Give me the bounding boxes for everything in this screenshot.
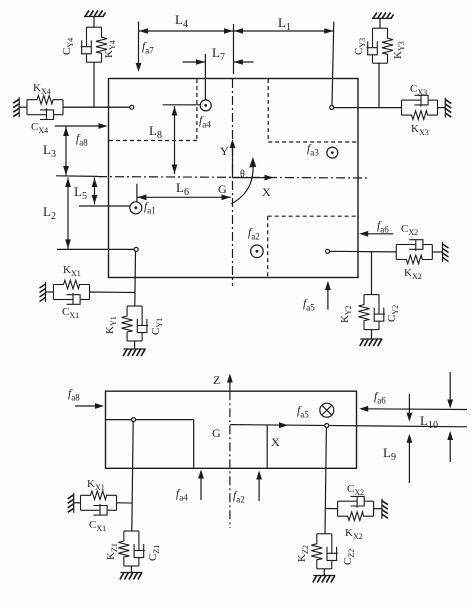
svg-text:X: X (262, 185, 271, 199)
svg-text:KZ1: KZ1 (105, 543, 119, 560)
svg-text:CY1: CY1 (150, 318, 164, 335)
centerline vertical (top view) (232, 79, 234, 286)
wire: X1 stem from wall (46, 291, 54, 293)
ground (X3 wall) (445, 98, 451, 118)
svg-text:KX1: KX1 (87, 478, 105, 492)
wire: top-left node line (64, 106, 130, 108)
svg-text:fa1: fa1 (144, 201, 156, 216)
svg-text:CZ2: CZ2 (342, 549, 356, 565)
centerline vertical (side view) (229, 391, 231, 528)
svg-text:fa4: fa4 (199, 115, 211, 130)
dimension L9 (arrows at x=409) (407, 394, 413, 483)
Y axis (232, 143, 234, 178)
wire: X1 side stem from wall (74, 502, 81, 504)
spring-damper X2 box (damper top) (396, 240, 432, 264)
svg-text:fa2: fa2 (248, 227, 260, 242)
dimension L8 (172, 106, 178, 174)
svg-text:fa6: fa6 (377, 220, 389, 235)
spring-damper X4 box (27, 95, 63, 119)
svg-text:fa8: fa8 (68, 388, 80, 403)
dimension L2 (65, 178, 71, 249)
svg-text:G: G (212, 426, 221, 440)
tick centerline left (56, 175, 98, 178)
dimension L7 (outside arrows) (183, 59, 254, 65)
wire: Y2 stem down (371, 252, 373, 295)
force f_a3 (circle-dot) (327, 147, 338, 158)
svg-text:CY3: CY3 (353, 38, 367, 55)
svg-text:G: G (218, 182, 227, 196)
node (top-right) (330, 106, 334, 110)
spring-damper X1 box (54, 280, 90, 304)
svg-text:L5: L5 (74, 184, 87, 202)
svg-text:L7: L7 (212, 45, 225, 63)
spring-damper Y4 box (81, 27, 108, 62)
spring-damper X3 box (damper on top) (402, 95, 438, 119)
dimension L5 (92, 178, 98, 205)
ground (X1 side wall) (68, 493, 74, 513)
ground (Y2) (360, 339, 383, 346)
spring-damper Y1 box (spring left) (122, 306, 149, 341)
ground (X1 wall) (40, 282, 46, 302)
Z axis (229, 378, 231, 392)
svg-text:CX4: CX4 (31, 121, 48, 135)
theta rotation arc (231, 163, 253, 204)
wire: X2 side stem to wall (374, 508, 382, 510)
force f_a7 arrow (136, 22, 142, 73)
ground (X2 wall) (443, 242, 449, 262)
dimension L4 (139, 28, 234, 34)
wire: side left node down to Z1 (132, 422, 133, 531)
svg-text:KY3: KY3 (392, 41, 406, 59)
svg-text:CY2: CY2 (386, 305, 400, 322)
left foot inner lines (106, 419, 194, 421)
ground (Y4) (84, 11, 106, 17)
tick between L4/L1 (233, 24, 235, 74)
node (side left) (132, 418, 136, 422)
svg-text:L1: L1 (278, 15, 291, 33)
wire: Y3 stem to ground (379, 18, 381, 28)
force f_a6 arrow (side) (359, 406, 467, 412)
spring-damper Y3 box (367, 28, 394, 63)
svg-text:CX2: CX2 (347, 483, 364, 497)
spring-damper X2 box (side, damper top) (338, 496, 374, 520)
X axis (side view) with node line (230, 425, 467, 427)
wire: X4 box to node (63, 106, 130, 108)
svg-text:KZ2: KZ2 (296, 545, 310, 562)
wire: top-right node vertical from L1 (332, 22, 334, 106)
svg-text:fa3: fa3 (307, 143, 319, 158)
mass M (top view outline) (109, 79, 359, 278)
dimension L10 (outside arrows at x=450) (447, 372, 453, 462)
svg-text:fa5: fa5 (303, 298, 315, 313)
dashed partition (top-right region) (268, 79, 357, 142)
force f_a6 arrow (top view) (359, 231, 393, 237)
wire: node down to Y1 (134, 251, 137, 306)
svg-text:fa5: fa5 (297, 405, 309, 420)
wire: bottom-left node line (57, 248, 134, 250)
force f_a8 arrow (55, 123, 108, 129)
dimension L3 (63, 127, 69, 176)
wire: node to X3 (334, 107, 402, 109)
wire: Y4 stem to ground (93, 17, 95, 28)
svg-text:CX1: CX1 (89, 519, 106, 533)
svg-text:Y: Y (220, 144, 229, 158)
svg-text:L8: L8 (149, 123, 162, 141)
spring-damper Z2 box (spring left) (311, 534, 338, 569)
svg-text:L2: L2 (43, 204, 56, 222)
force f_a5 (circle-cross, side) (320, 403, 334, 417)
svg-text:KX1: KX1 (63, 264, 81, 278)
wire: Z2 stem to ground (323, 569, 325, 576)
svg-text:fa4: fa4 (176, 488, 188, 503)
right foot inner line (266, 425, 268, 468)
svg-text:fa2: fa2 (233, 490, 245, 505)
svg-text:CX2: CX2 (401, 223, 418, 237)
dashed partition (top-left region) (109, 79, 197, 141)
svg-text:KX2: KX2 (404, 267, 422, 281)
wire: X1 line to Y1 stem (90, 291, 136, 294)
svg-text:fa8: fa8 (76, 133, 88, 148)
svg-text:KX2: KX2 (345, 527, 363, 541)
svg-text:L6: L6 (176, 180, 189, 198)
ground (Z2) (313, 576, 336, 583)
svg-text:X: X (271, 435, 280, 449)
centerline horizontal (top view) (98, 177, 369, 178)
ground (Z1) (120, 573, 143, 580)
svg-text:CX1: CX1 (62, 306, 79, 320)
svg-text:fa7: fa7 (142, 41, 154, 56)
force f_a2 (circle-dot) (251, 245, 264, 258)
svg-text:CZ1: CZ1 (147, 545, 161, 561)
svg-text:L10: L10 (420, 413, 438, 431)
dimension L1 (234, 28, 334, 34)
mass M (side view outline) (106, 391, 357, 468)
spring-damper Z1 box (spring left) (118, 531, 145, 566)
wire: X1 side stem to vertical (117, 502, 133, 504)
svg-text:KY1: KY1 (104, 316, 118, 334)
wire: bottom-right node line (330, 250, 397, 253)
force f_a1 (circle-dot with stem) (79, 184, 142, 214)
force f_a8 arrow (side) (75, 403, 104, 409)
svg-text:CY4: CY4 (61, 38, 75, 55)
wire: X3 to wall (438, 107, 446, 109)
ground (Y1) (123, 349, 146, 356)
force f_a4 arrow (side) (198, 470, 204, 501)
wire: Y1 stem to ground (134, 341, 136, 349)
svg-text:L9: L9 (383, 445, 396, 463)
node (bottom-right) (326, 249, 330, 253)
wire: X2 side stem from vertical (325, 508, 337, 510)
wire: stem from Y4 assembly down (93, 63, 95, 108)
node (bottom-left) (134, 247, 138, 251)
svg-text:KX4: KX4 (33, 82, 51, 96)
spring-damper Y2 box (spring left) (359, 295, 386, 330)
svg-text:θ: θ (240, 169, 245, 180)
dimension L6 (137, 194, 231, 200)
svg-text:CX3: CX3 (410, 83, 427, 97)
wire: Y3 stem down (378, 64, 380, 108)
svg-text:Z: Z (213, 373, 220, 387)
ground (Y3) (372, 12, 394, 18)
svg-text:L4: L4 (175, 12, 188, 30)
wire: Z1 stem to ground (130, 566, 132, 573)
wire: Y2 stem to ground (371, 330, 373, 339)
wire: X2 stem to wall (432, 251, 442, 253)
svg-text:fa6: fa6 (374, 391, 386, 406)
svg-text:KX3: KX3 (411, 123, 429, 137)
ground (X4 wall) (13, 97, 19, 117)
node (top-left) (130, 105, 134, 109)
svg-text:KY2: KY2 (339, 305, 353, 323)
wire: side right node down to Z2 (325, 428, 326, 534)
force f_a4 (circle-dot) (163, 54, 212, 111)
svg-text:L3: L3 (43, 142, 56, 160)
force f_a5 arrow (top view) (325, 281, 331, 310)
dashed partition (bottom-right region) (268, 216, 358, 277)
force f_a2 arrow (side) (256, 471, 262, 502)
ground (X2 side wall) (382, 499, 388, 519)
wire: X4 stem from wall (19, 106, 27, 108)
spring-damper X1 box (side) (81, 491, 117, 515)
node (side right) (325, 424, 329, 428)
X axis (233, 177, 270, 179)
